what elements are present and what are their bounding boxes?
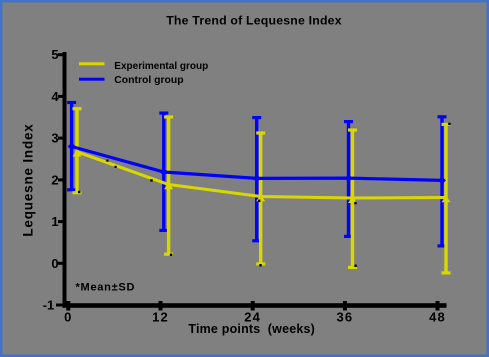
x-axis: [63, 303, 447, 308]
blue marker w48: [438, 176, 446, 184]
black dot artifact w36 bottom: [354, 265, 356, 267]
svg-text:0: 0: [64, 310, 72, 325]
legend blue line: [79, 78, 105, 81]
y tick 5: [58, 53, 64, 56]
svg-text:5: 5: [51, 47, 58, 62]
svg-text:36: 36: [336, 310, 353, 325]
x tick 36: [343, 301, 347, 311]
y tick 1: [58, 220, 64, 223]
blue marker w12: [160, 168, 168, 176]
y tick 2: [58, 178, 64, 181]
y tick 4: [58, 95, 64, 98]
yellow series line: [77, 152, 446, 198]
blue error bar w12: [159, 113, 168, 230]
yellow error bar w12: [164, 117, 173, 254]
blue series line: [72, 147, 442, 181]
svg-text:*Mean±SD: *Mean±SD: [76, 282, 136, 294]
black dot artifact w0 bottom: [78, 191, 80, 193]
yellow error bar w48: [442, 124, 451, 273]
blue marker w0: [68, 143, 76, 151]
y tick 0: [58, 262, 64, 265]
yellow marker w24: [256, 195, 265, 202]
svg-text:Lequesne Index: Lequesne Index: [21, 123, 36, 236]
blue error bar w48: [438, 117, 447, 246]
y tick -1: [56, 304, 64, 307]
black dot artifact w12 line: [150, 179, 152, 181]
yellow error bar w24: [256, 133, 265, 264]
blue marker w36: [345, 174, 353, 182]
x tick 12: [159, 301, 163, 311]
yellow marker w48: [442, 196, 451, 203]
svg-text:4: 4: [51, 89, 59, 104]
y-axis: [63, 52, 67, 308]
blue error bar w24: [252, 118, 261, 241]
black dot artifact w24 marker: [258, 200, 260, 202]
svg-text:12: 12: [152, 310, 169, 325]
svg-text:The Trend of Lequesne Index: The Trend of Lequesne Index: [166, 14, 342, 28]
svg-text:Experimental group: Experimental group: [114, 61, 208, 72]
black dot artifact w48 top: [448, 123, 450, 125]
legend yellow line: [79, 62, 105, 65]
x tick 48: [436, 301, 440, 311]
blue error bar w0: [67, 103, 76, 190]
svg-text:48: 48: [429, 310, 446, 325]
black dot artifact w24 bottom: [259, 264, 261, 266]
blue error bar w36: [344, 122, 353, 237]
svg-text:3: 3: [51, 131, 58, 146]
svg-text:Control group: Control group: [114, 75, 183, 86]
y tick 3: [58, 137, 64, 140]
yellow error bar w36: [348, 130, 357, 267]
svg-text:2: 2: [51, 172, 58, 187]
svg-text:0: 0: [51, 256, 58, 271]
black dot artifact segment a: [106, 160, 108, 162]
svg-text:24: 24: [244, 310, 261, 325]
x tick 0: [66, 301, 70, 311]
svg-text:-1: -1: [43, 297, 55, 312]
yellow marker w12: [164, 183, 173, 190]
black dot artifact segment b: [115, 166, 117, 168]
blue marker w24: [253, 174, 261, 182]
black dot artifact w12 bottom: [170, 254, 172, 256]
x tick 24: [251, 301, 255, 311]
svg-text:1: 1: [51, 214, 58, 229]
yellow error bar w0: [73, 109, 82, 193]
yellow marker w0: [73, 150, 82, 157]
black dot artifact w36 marker: [354, 202, 356, 204]
yellow marker w36: [348, 196, 357, 203]
